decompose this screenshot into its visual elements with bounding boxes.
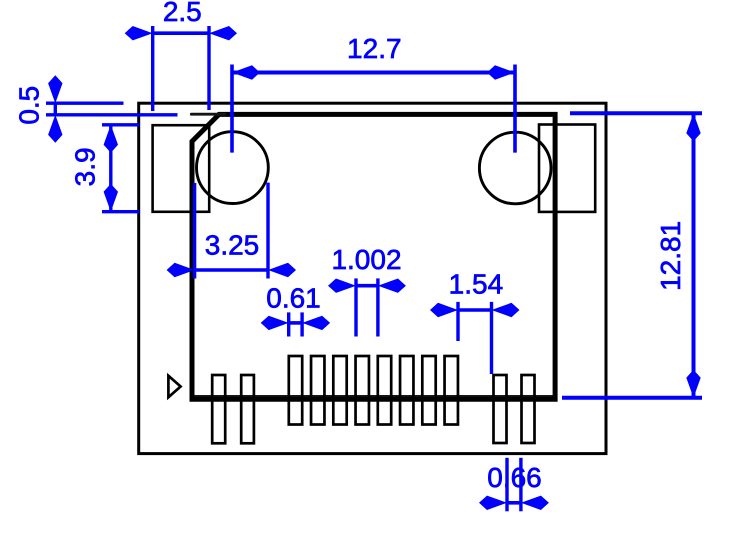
left pad pair xyxy=(212,375,254,443)
svg-text:1.54: 1.54 xyxy=(449,268,504,299)
dim 1.54 line xyxy=(458,308,492,312)
svg-text:0.66: 0.66 xyxy=(487,462,542,493)
dim 0.5 line xyxy=(54,103,57,115)
dim 3.25 extension lines xyxy=(193,183,196,279)
0.61 arrows (outside) xyxy=(261,316,289,330)
shield outline (thick, chamfered top-left corner) xyxy=(192,114,555,399)
dim 2.5 line xyxy=(153,31,209,35)
right mounting post circle xyxy=(479,132,551,204)
dim 0.5 extension lines xyxy=(46,101,124,104)
dim 12.7 extension lines xyxy=(230,65,234,153)
right latch rectangle xyxy=(539,125,595,212)
dim 1.002 extension ticks xyxy=(354,278,357,336)
dim 3.9 line xyxy=(109,125,112,212)
12.7 arrows (inside) xyxy=(232,65,260,79)
svg-text:12.7: 12.7 xyxy=(347,33,402,64)
dim 0.66 extension ticks xyxy=(505,458,508,512)
left mounting post circle xyxy=(197,132,269,204)
fab cap line top-left xyxy=(191,113,225,116)
3.25 arrows (outside) xyxy=(167,263,195,277)
dim 12.81 extension lines xyxy=(570,111,702,115)
middle pin pads (8) xyxy=(289,356,458,425)
dim 0.61 line xyxy=(289,321,302,325)
svg-text:3.25: 3.25 xyxy=(205,230,260,261)
dim 1.54 extension ticks xyxy=(456,302,459,341)
0.5 arrows (outside) xyxy=(48,75,62,103)
dim 0.66 line xyxy=(507,501,521,505)
arrowheads xyxy=(48,26,701,510)
outer body outline xyxy=(139,103,606,453)
3.9 arrows (inside) xyxy=(104,125,118,153)
dim 3.9 extension lines xyxy=(102,123,140,126)
left latch rectangle xyxy=(153,125,210,212)
pin-1 triangle marker xyxy=(168,376,180,398)
right pad pair xyxy=(494,375,535,443)
dim 2.5 extension lines xyxy=(151,26,154,111)
dim 3.25 line xyxy=(195,268,268,272)
dim 12.7 line xyxy=(232,71,515,75)
svg-text:2.5: 2.5 xyxy=(163,0,202,27)
1.54 arrows (outside) xyxy=(430,303,458,317)
dim 0.61 extension ticks xyxy=(287,312,290,336)
svg-text:1.002: 1.002 xyxy=(331,244,401,275)
0.66 arrows (outside) xyxy=(479,496,507,510)
svg-text:0.61: 0.61 xyxy=(266,283,321,314)
12.81 arrows (inside) xyxy=(686,113,700,141)
2.5 arrows (outside) xyxy=(125,26,153,40)
svg-text:3.9: 3.9 xyxy=(70,147,101,186)
1.002 arrows (outside) xyxy=(328,279,356,293)
svg-text:12.81: 12.81 xyxy=(655,221,686,291)
svg-text:0.5: 0.5 xyxy=(13,86,44,125)
dim 1.002 line xyxy=(356,284,378,288)
fab bottom line xyxy=(194,395,554,397)
dim 12.81 line xyxy=(692,113,696,398)
